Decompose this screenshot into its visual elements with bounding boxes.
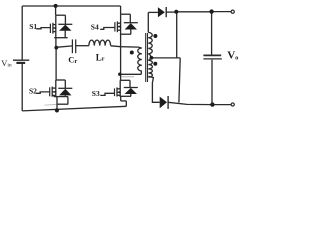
svg-text:S2: S2 [29, 87, 37, 96]
svg-text:S1: S1 [29, 22, 37, 31]
svg-text:S4: S4 [91, 23, 99, 32]
svg-text:S3: S3 [92, 89, 100, 98]
